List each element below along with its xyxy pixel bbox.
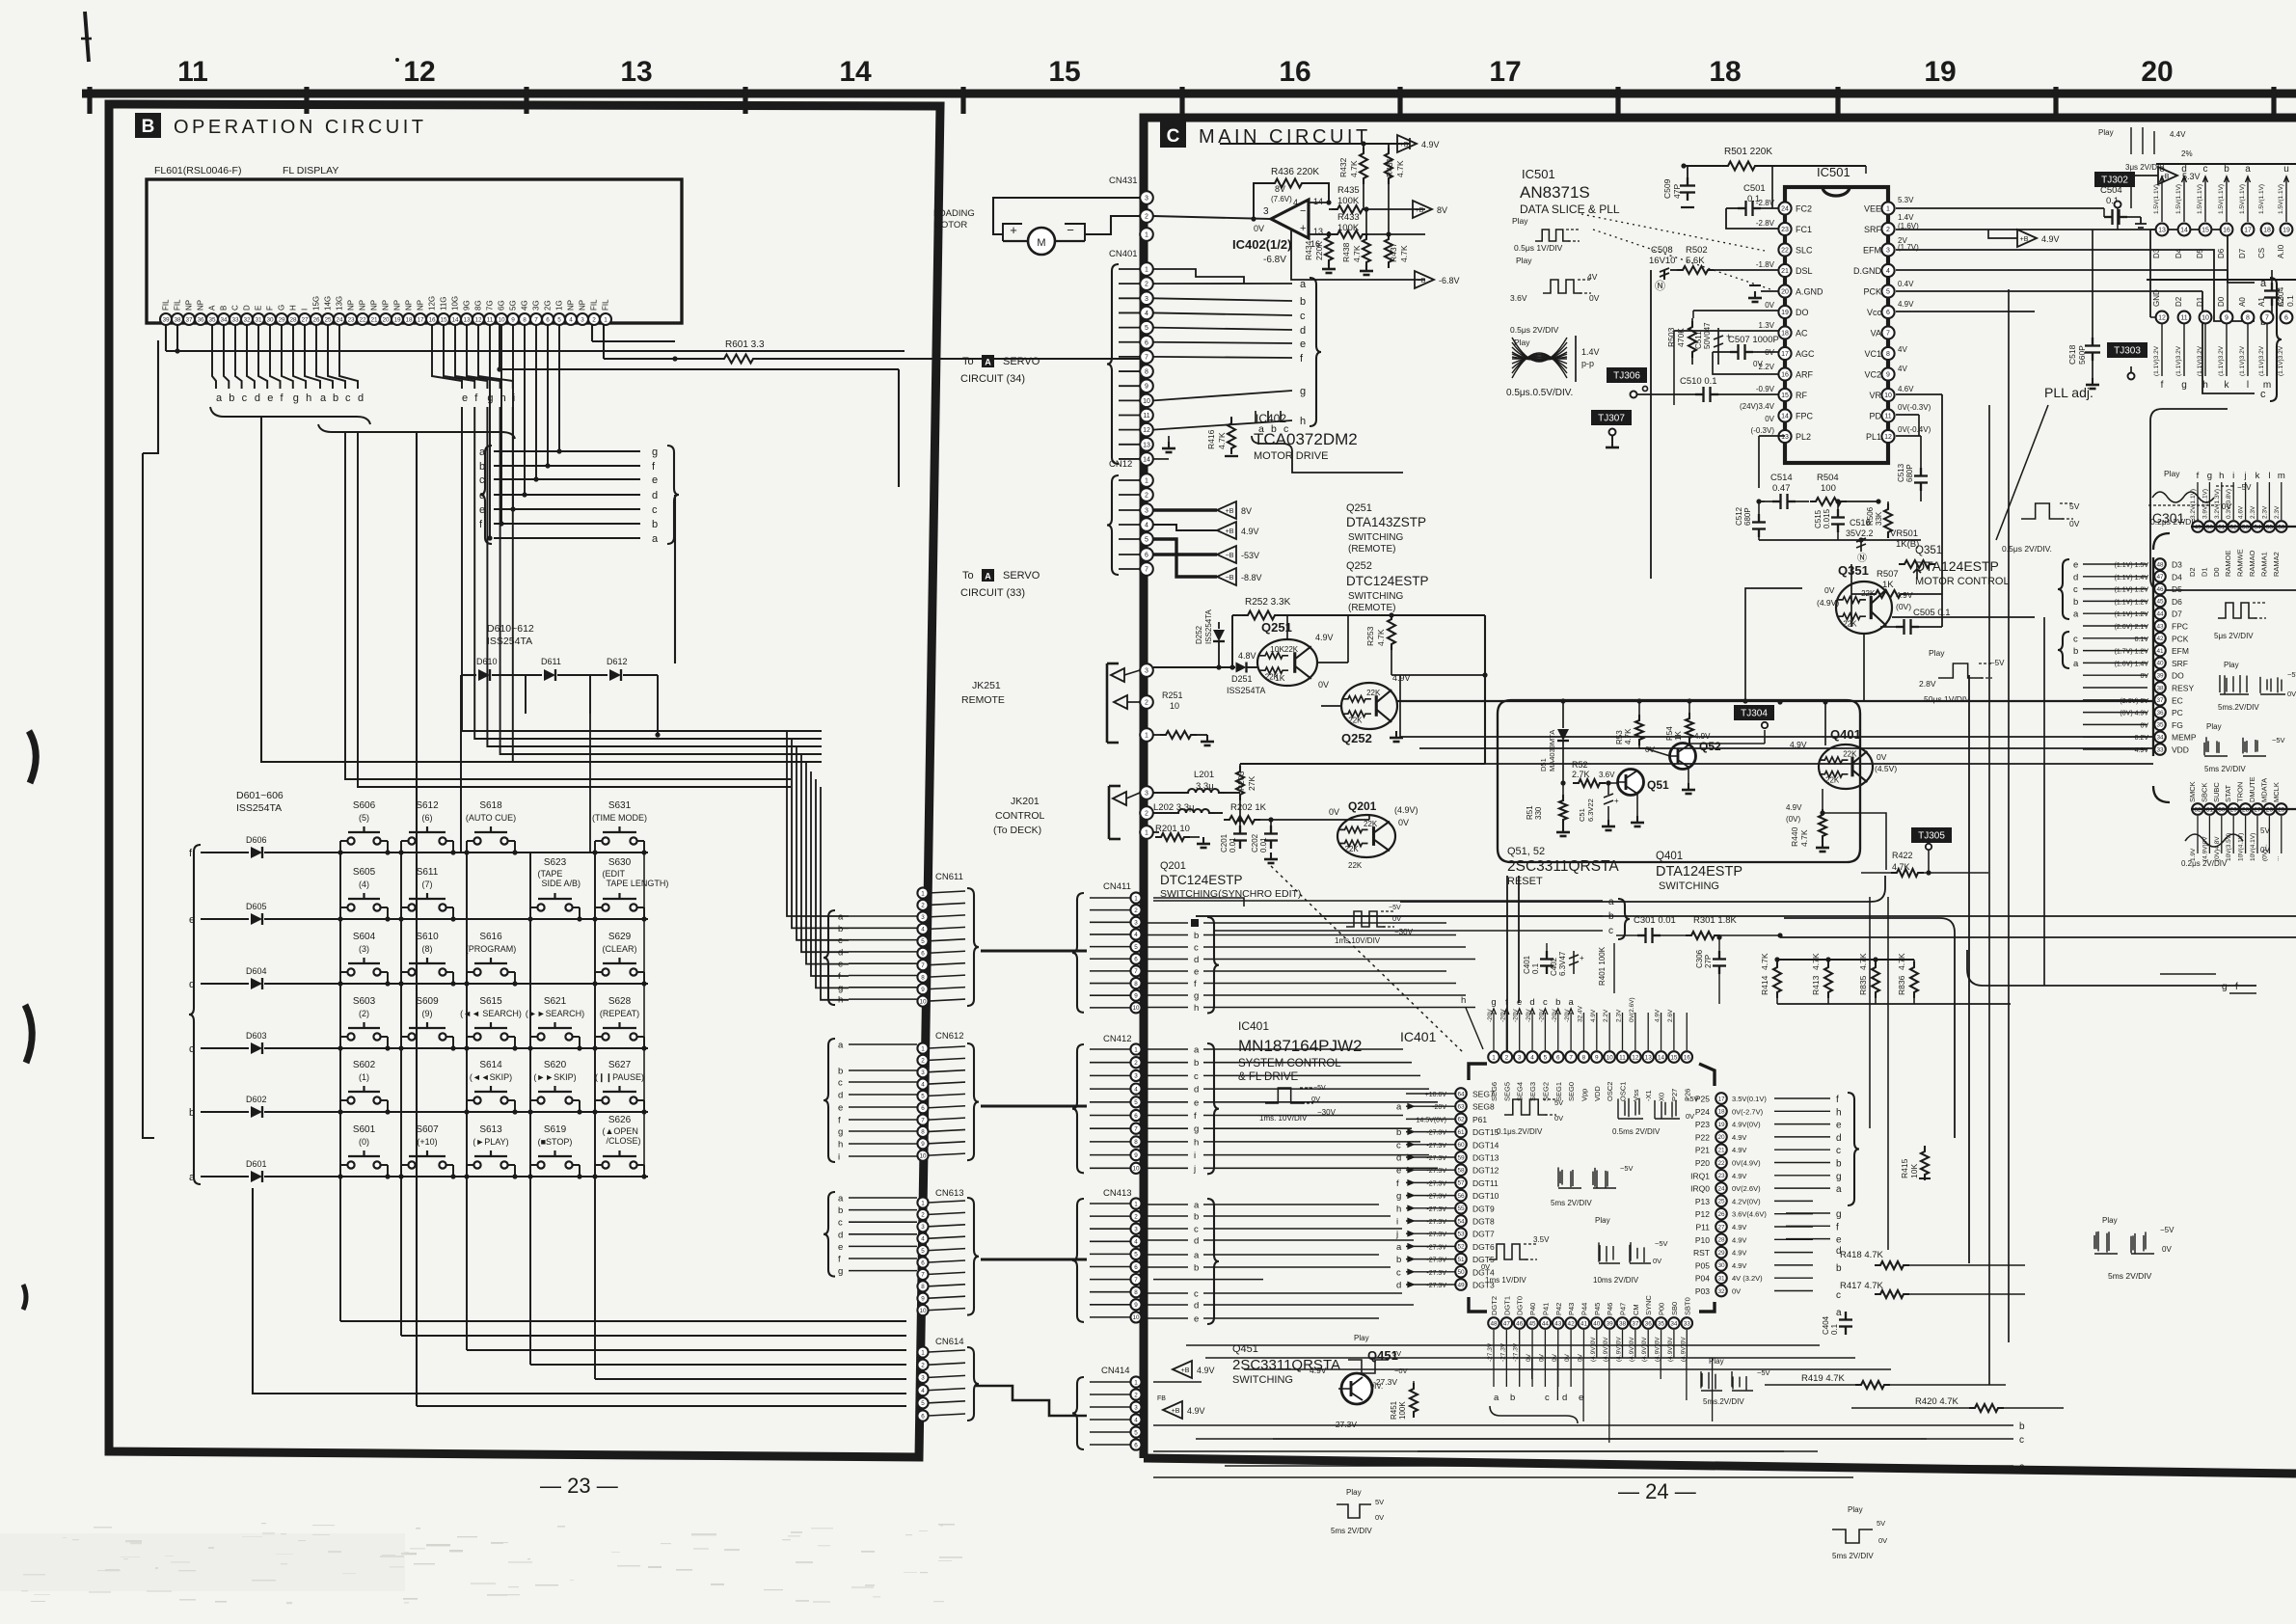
svg-text:4.7K: 4.7K (1799, 829, 1809, 847)
svg-text:1ms 1V/DIV: 1ms 1V/DIV (1485, 1276, 1526, 1285)
svg-text:11: 11 (487, 316, 494, 323)
svg-text:6: 6 (1134, 1264, 1138, 1271)
svg-text:DTC124ESTP: DTC124ESTP (1346, 574, 1429, 588)
svg-text:42: 42 (2156, 636, 2164, 642)
svg-text:11: 11 (1619, 1054, 1626, 1061)
svg-text:D: D (243, 305, 252, 311)
IC401 top pins (1487, 997, 1692, 1101)
svg-text:g: g (838, 1266, 843, 1277)
wire (1287, 615, 1488, 678)
svg-text:D611: D611 (541, 657, 561, 666)
resistor R417 4.7K (1840, 1281, 2025, 1298)
svg-text:m: m (2263, 380, 2271, 391)
svg-text:22K: 22K (1364, 820, 1378, 828)
test point TJ305 (1911, 827, 1952, 843)
svg-text:S619: S619 (544, 1124, 567, 1135)
svg-text:(+10): (+10) (417, 1137, 437, 1147)
svg-text:DGT10: DGT10 (1472, 1191, 1499, 1201)
svg-text:(1.1V)3.2V: (1.1V)3.2V (2153, 345, 2160, 376)
svg-text:c: c (345, 392, 351, 404)
svg-text:R253: R253 (1365, 626, 1375, 646)
svg-text:A: A (985, 572, 991, 582)
svg-text:MCLK: MCLK (2272, 782, 2281, 802)
svg-text:1ms 10V/DIV: 1ms 10V/DIV (1335, 936, 1381, 945)
svg-text:10V(4.1V): 10V(4.1V) (2250, 833, 2256, 861)
svg-text:c: c (1194, 1225, 1199, 1235)
svg-text:e: e (1396, 1166, 1401, 1177)
svg-text:SEG7: SEG7 (1472, 1090, 1495, 1099)
svg-text:35V2.2: 35V2.2 (1846, 528, 1874, 538)
connector CN413 (1072, 1188, 1232, 1325)
svg-text:C518: C518 (2067, 344, 2077, 365)
svg-text:C51: C51 (1578, 808, 1586, 822)
svg-text:R502: R502 (1686, 245, 1708, 256)
svg-text:3.5V(0.1V): 3.5V(0.1V) (1732, 1095, 1767, 1103)
svg-text:−30V: −30V (1317, 1108, 1337, 1117)
svg-text:f: f (838, 1116, 841, 1126)
svg-text:8G: 8G (474, 300, 483, 311)
svg-text:d: d (838, 947, 843, 958)
wire loop (1498, 700, 1860, 862)
switch S619 (527, 1124, 581, 1179)
scope note (1331, 1488, 1384, 1535)
svg-text:36: 36 (1645, 1320, 1653, 1327)
svg-text:4.7K: 4.7K (1352, 245, 1362, 262)
svg-text:0V: 0V (1732, 1287, 1741, 1296)
svg-text:OPERATION CIRCUIT: OPERATION CIRCUIT (174, 117, 426, 138)
svg-text:7: 7 (534, 316, 538, 323)
svg-text:−5V: −5V (2272, 736, 2285, 744)
svg-text:STAT: STAT (2224, 785, 2232, 802)
svg-text:16: 16 (1684, 1054, 1691, 1061)
svg-text:Play: Play (1929, 648, 1945, 658)
transistor Q251 (1238, 620, 1334, 686)
resistor R437 4.7K (1385, 231, 1409, 268)
svg-text:i: i (2232, 471, 2234, 481)
svg-text:D604: D604 (246, 966, 267, 976)
resistor R51 330 (1526, 780, 1570, 836)
switch S614 (464, 1060, 517, 1115)
svg-text:b: b (1836, 1263, 1842, 1274)
svg-text:RAMA1: RAMA1 (2259, 552, 2268, 577)
svg-text:50μs 1V/DIV: 50μs 1V/DIV (1924, 694, 1970, 704)
capacitor C513 680P (1896, 436, 1928, 501)
svg-text:+B: +B (1226, 528, 1234, 535)
svg-text:(1.1V)3.2V: (1.1V)3.2V (2258, 345, 2265, 376)
svg-text:SEG2: SEG2 (1541, 1082, 1550, 1101)
svg-text:R413: R413 (1811, 975, 1821, 995)
svg-text:f: f (1505, 997, 1508, 1008)
svg-text:0.3V(0.8V): 0.3V(0.8V) (2226, 489, 2232, 519)
svg-text:(►►SKIP): (►►SKIP) (533, 1072, 576, 1082)
wire (981, 949, 1087, 952)
svg-text:2.3V: 2.3V (2274, 505, 2281, 519)
svg-text:g: g (1194, 1124, 1199, 1135)
scope note (1612, 1095, 1699, 1136)
svg-text:c: c (1194, 943, 1199, 954)
ruler tick (1615, 87, 1620, 114)
svg-text:(1.1V)3.2V: (1.1V)3.2V (2175, 345, 2182, 376)
svg-text:(9): (9) (422, 1009, 433, 1018)
inductor L202 3.3u (1153, 802, 1223, 813)
svg-text:(To DECK): (To DECK) (993, 825, 1041, 836)
svg-text:R506: R506 (1866, 506, 1875, 526)
svg-text:26: 26 (312, 316, 320, 323)
svg-text:18: 18 (1717, 1109, 1725, 1116)
svg-text:a: a (1194, 1045, 1200, 1056)
svg-text:+: + (1614, 797, 1619, 805)
svg-text:c: c (1396, 1267, 1401, 1278)
power -B 5.3V (2131, 167, 2201, 208)
svg-text:R54: R54 (1665, 726, 1674, 741)
svg-text:c: c (1836, 1146, 1841, 1156)
capacitor C51 (1578, 780, 1619, 830)
svg-text:(2.6V) 0V: (2.6V) 0V (2120, 698, 2148, 705)
svg-text:3.2V(1.3V): 3.2V(1.3V) (2214, 489, 2221, 519)
ruler number 17 (1489, 56, 1521, 88)
svg-text:2: 2 (1145, 282, 1148, 288)
svg-text:M: M (1037, 237, 1045, 249)
svg-text:IC301: IC301 (2148, 510, 2185, 526)
svg-text:ISS254TA: ISS254TA (1227, 686, 1265, 695)
wire (643, 853, 645, 1178)
svg-text:(-0.3V): (-0.3V) (1751, 426, 1775, 435)
capacitor C507 1000P (1713, 335, 1779, 374)
ruler number 18 (1709, 56, 1741, 88)
svg-text:c: c (2073, 634, 2078, 644)
svg-text:X0: X0 (1658, 1093, 1666, 1101)
svg-text:Play: Play (1516, 256, 1532, 265)
svg-text:R836: R836 (1897, 975, 1906, 995)
svg-text:f: f (1396, 1178, 1399, 1189)
svg-text:0V(-0.3V): 0V(-0.3V) (1898, 403, 1931, 412)
svg-text:10: 10 (1143, 398, 1150, 405)
node letters f-a (1813, 1093, 1859, 1205)
scope note (1497, 1098, 1563, 1136)
svg-text:g: g (1396, 1191, 1401, 1202)
svg-text:4: 4 (1530, 1054, 1534, 1061)
svg-text:FG: FG (2172, 720, 2183, 730)
svg-text:PLL adj.: PLL adj. (2044, 385, 2093, 400)
svg-text:DATA SLICE & PLL: DATA SLICE & PLL (1520, 203, 1620, 216)
svg-text:39: 39 (162, 316, 170, 323)
svg-text:6.3V22: 6.3V22 (1586, 798, 1595, 822)
svg-text:64: 64 (1457, 1091, 1465, 1097)
wire (1240, 764, 1485, 820)
svg-text:c: c (1194, 1071, 1199, 1082)
svg-text:d: d (1529, 997, 1534, 1008)
svg-text:d: d (1300, 325, 1306, 337)
ruler number 13 (620, 56, 652, 88)
ruler tick (1835, 87, 1840, 114)
wire (166, 325, 905, 354)
svg-text:Play: Play (1354, 1334, 1369, 1342)
svg-text:L202 3.3μ: L202 3.3μ (1153, 802, 1194, 813)
svg-text:5: 5 (557, 316, 561, 323)
svg-text:P27: P27 (1670, 1089, 1679, 1101)
svg-text:10: 10 (919, 1308, 927, 1314)
svg-text:FB: FB (1157, 1395, 1166, 1402)
node abc (1252, 411, 1403, 473)
svg-text:Play: Play (2224, 661, 2239, 669)
svg-text:2.6V: 2.6V (1667, 1009, 1674, 1022)
svg-text:Q252: Q252 (1341, 731, 1372, 745)
svg-text:13: 13 (620, 56, 652, 88)
svg-text:2: 2 (592, 316, 596, 323)
svg-text:A: A (208, 305, 217, 311)
capacitor C512 680P (1735, 499, 1766, 537)
resistor R434 220K (1304, 231, 1336, 273)
resistor R601 3.3 (675, 339, 1140, 364)
svg-text:4: 4 (1134, 1417, 1138, 1423)
wires IC501 right (1896, 230, 2282, 401)
wire (592, 325, 678, 362)
svg-text:1.5V(1.1V): 1.5V(1.1V) (2218, 184, 2225, 214)
IC301 outline (2153, 527, 2296, 809)
diode label (236, 790, 284, 814)
svg-text:−: − (1300, 205, 1306, 217)
svg-text:14: 14 (1781, 414, 1789, 420)
svg-text:5: 5 (1134, 1429, 1138, 1436)
svg-text:8: 8 (1134, 981, 1138, 988)
ruler number 11 (177, 56, 208, 88)
svg-text:3: 3 (1145, 296, 1148, 303)
svg-text:d: d (838, 1091, 843, 1101)
svg-text:D7: D7 (2238, 248, 2247, 258)
svg-text:R438: R438 (1341, 242, 1351, 262)
svg-text:(CLEAR): (CLEAR) (602, 944, 636, 954)
svg-text:D602: D602 (246, 1095, 267, 1104)
IC IC401 outline (1469, 1064, 1715, 1312)
svg-text:(REMOTE): (REMOTE) (1348, 603, 1395, 613)
svg-text:8: 8 (2246, 315, 2250, 322)
svg-text:& FL DRIVE: & FL DRIVE (1238, 1071, 1299, 1083)
svg-text:(1.1V) 1.2V: (1.1V) 1.2V (2115, 611, 2149, 618)
capacitor C505 0.1 (1880, 608, 1951, 635)
svg-text:10K: 10K (1909, 1164, 1919, 1178)
svg-text:(4.9V): (4.9V) (1817, 598, 1839, 608)
svg-text:0.1: 0.1 (2285, 295, 2295, 307)
svg-text:23: 23 (1781, 227, 1789, 233)
ground (1748, 285, 1778, 302)
resistor R54 1K (1665, 701, 1711, 744)
wire (340, 1320, 906, 1322)
svg-text:IC401: IC401 (1400, 1029, 1437, 1044)
svg-text:e: e (652, 474, 658, 486)
svg-text:g: g (293, 392, 299, 404)
svg-text:10: 10 (1884, 392, 1892, 399)
svg-text:5: 5 (1134, 1099, 1138, 1106)
svg-text:1.5V(1.1V): 1.5V(1.1V) (2197, 184, 2203, 214)
svg-text:47: 47 (1503, 1320, 1511, 1327)
resistor R414 4.7K (1760, 953, 1781, 1004)
svg-text:42: 42 (1568, 1320, 1576, 1327)
svg-text:Ⓝ: Ⓝ (1655, 280, 1665, 292)
wire bracket (189, 845, 201, 1184)
resistor R451 100K (1390, 1381, 1418, 1420)
svg-text:h: h (1300, 416, 1306, 427)
svg-text:0.01: 0.01 (1229, 837, 1237, 853)
svg-text:MOTOR: MOTOR (933, 220, 967, 230)
svg-text:g: g (1836, 1172, 1842, 1182)
svg-text:4: 4 (1134, 932, 1138, 938)
svg-text:52: 52 (1457, 1244, 1465, 1251)
svg-text:40: 40 (1593, 1320, 1601, 1327)
svg-text:6: 6 (1145, 553, 1148, 559)
svg-text:14: 14 (1658, 1054, 1665, 1061)
svg-text:15G: 15G (312, 296, 321, 311)
svg-text:SRF: SRF (1864, 225, 1882, 234)
svg-text:D7: D7 (2172, 609, 2182, 619)
svg-text:0V(-2.7V): 0V(-2.7V) (1732, 1107, 1764, 1116)
svg-text:+B: +B (1416, 207, 1424, 214)
svg-text:1: 1 (1886, 206, 1890, 213)
svg-text:b: b (1194, 1212, 1199, 1223)
svg-text:15: 15 (440, 316, 447, 323)
svg-text:P23: P23 (1695, 1120, 1710, 1129)
resistor R203 27K (1236, 764, 1256, 800)
svg-text:a: a (838, 1041, 844, 1051)
switch S630 (592, 857, 668, 922)
wire enclosure (2150, 409, 2296, 590)
svg-text:C: C (1167, 126, 1180, 147)
svg-text:31: 31 (255, 316, 262, 323)
svg-text:S621: S621 (544, 996, 567, 1007)
svg-text:10: 10 (1607, 1054, 1614, 1061)
svg-text:c: c (838, 935, 843, 946)
scope note (1701, 1357, 1770, 1406)
svg-text:R417 4.7K: R417 4.7K (1840, 1281, 1884, 1291)
resistor R418 4.7K (1840, 1250, 2025, 1269)
wire bundle CN611 letters (787, 731, 849, 1000)
svg-text:2: 2 (1145, 493, 1148, 500)
svg-text:b: b (229, 392, 234, 404)
loading motor (933, 198, 1140, 255)
svg-text:10K: 10K (1270, 644, 1284, 654)
FL segment wires a-h (212, 325, 311, 404)
svg-text:6: 6 (546, 316, 550, 323)
svg-text:−5V: −5V (2287, 670, 2296, 679)
svg-text:40: 40 (2156, 661, 2164, 667)
svg-text:R451: R451 (1390, 1400, 1398, 1420)
resistor R502 5.6K (1655, 245, 1778, 292)
svg-text:P40: P40 (1528, 1303, 1537, 1315)
svg-text:14: 14 (839, 56, 872, 88)
svg-text:13: 13 (1781, 434, 1789, 441)
dashed leader (1271, 866, 1464, 1053)
svg-text:CS: CS (2257, 248, 2266, 258)
svg-text:3: 3 (1145, 196, 1148, 203)
svg-text:f: f (1836, 1222, 1839, 1232)
svg-text:4.7K: 4.7K (1760, 953, 1769, 970)
svg-text:1: 1 (1134, 1046, 1138, 1053)
svg-text:4.7K: 4.7K (1217, 432, 1227, 449)
wire (981, 1258, 1087, 1260)
svg-text:SWITCHING: SWITCHING (1232, 1374, 1293, 1386)
transistor Q52 (1639, 740, 1721, 770)
svg-text:4.9V: 4.9V (1655, 1009, 1661, 1022)
svg-text:To: To (962, 356, 974, 367)
svg-text:b: b (1194, 1263, 1199, 1274)
svg-text:4.9V: 4.9V (1421, 140, 1440, 149)
svg-text:c: c (838, 1078, 843, 1089)
svg-text:2: 2 (1134, 907, 1138, 914)
svg-text:0.2μs 2V/DIV: 0.2μs 2V/DIV (2181, 859, 2228, 868)
svg-text:e: e (1194, 1097, 1199, 1108)
wire (1309, 200, 1332, 234)
svg-text:P05: P05 (1695, 1260, 1710, 1270)
label Q51 52 (1507, 846, 1619, 887)
svg-text:9: 9 (1134, 1152, 1138, 1159)
wire (529, 853, 531, 1365)
svg-text:c: c (838, 1218, 843, 1229)
svg-text:17: 17 (1717, 1096, 1725, 1102)
IC401 seg letters (1491, 997, 1574, 1015)
svg-text:0.1μs.2V/DIV: 0.1μs.2V/DIV (1497, 1127, 1543, 1136)
svg-text:SYNC: SYNC (1644, 1295, 1653, 1315)
svg-text:PD: PD (1869, 412, 1881, 421)
svg-text:5ms.2V/DIV: 5ms.2V/DIV (1703, 1397, 1744, 1406)
svg-text:g: g (2222, 982, 2228, 992)
svg-text:43: 43 (1554, 1320, 1562, 1327)
svg-text:0V(-0.4V): 0V(-0.4V) (1898, 425, 1931, 434)
svg-text:RST: RST (1693, 1248, 1710, 1258)
node letters gf (2160, 974, 2256, 993)
svg-text:AGC: AGC (1796, 349, 1815, 359)
svg-text:5G: 5G (509, 300, 518, 311)
node letters bca (1153, 1421, 2025, 1473)
svg-text:R835: R835 (1858, 975, 1868, 995)
svg-text:R501 220K: R501 220K (1724, 147, 1772, 157)
svg-text:a: a (320, 392, 327, 404)
svg-text:2SC3311QRSTA: 2SC3311QRSTA (1507, 858, 1619, 875)
svg-text:0V(4.9V): 0V(4.9V) (1732, 1159, 1761, 1168)
svg-text:e: e (462, 392, 468, 404)
svg-text:b: b (1300, 296, 1306, 308)
svg-text:TJ306: TJ306 (1613, 371, 1640, 382)
svg-text:-27.3V: -27.3V (1426, 1258, 1446, 1264)
svg-text:e: e (838, 1103, 843, 1114)
svg-text:0V: 0V (1481, 1262, 1490, 1271)
svg-text:59: 59 (1457, 1154, 1465, 1161)
svg-text:Q451: Q451 (1367, 1348, 1398, 1363)
svg-text:0.1V: 0.1V (2135, 636, 2149, 643)
svg-text:7: 7 (1134, 1125, 1138, 1132)
svg-text:h: h (1461, 995, 1466, 1006)
svg-text:(0V) 4.9V: (0V) 4.9V (2120, 711, 2148, 717)
svg-text:1: 1 (1145, 267, 1148, 274)
svg-text:8: 8 (523, 316, 527, 323)
svg-text:C512: C512 (1735, 506, 1743, 526)
svg-text:37: 37 (1632, 1320, 1639, 1327)
svg-text:R419 4.7K: R419 4.7K (1801, 1373, 1846, 1384)
power tap 4.9V (1153, 522, 1259, 539)
svg-text:SBT0: SBT0 (1683, 1297, 1691, 1315)
svg-text:4.9V: 4.9V (1732, 1133, 1746, 1142)
svg-text:4.7K: 4.7K (1858, 953, 1868, 970)
svg-text:C514: C514 (1770, 473, 1793, 483)
connector JK251 (961, 663, 1153, 743)
svg-text:P22: P22 (1695, 1132, 1710, 1142)
svg-text:0V: 0V (1398, 818, 1409, 827)
svg-text:G: G (278, 305, 286, 311)
wire drops IC401 bottom (1506, 1358, 1713, 1443)
scope note (2148, 469, 2252, 527)
svg-text:D5: D5 (2196, 248, 2204, 258)
svg-text:15: 15 (2201, 228, 2209, 234)
svg-text:R601 3.3: R601 3.3 (725, 339, 765, 350)
diode D51 (1539, 701, 1569, 783)
